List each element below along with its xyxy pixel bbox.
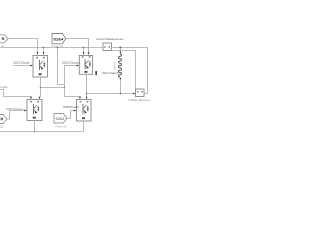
junction node riser [64,87,65,88]
svg-text:g1: g1 [1,44,5,48]
DC rail wire (y=47.5) [0,47,103,49]
goto tag G1 [52,34,66,44]
from tag F2 (bottom-left, clipped) [0,115,7,124]
wire from F1 to Q1 collector [8,39,37,53]
IGBT Q3 block [27,100,42,121]
from tag F3 [54,114,67,124]
svg-text:g2: g2 [0,125,4,129]
left wire into Q3 top-left [0,90,31,98]
arrowhead into Q1 gate [30,65,33,67]
junction node rail branch down [57,47,59,49]
Q3 emitter mark [33,117,36,119]
gate wire F3 to Q4 [67,111,74,119]
svg-text:S2&3: S2&3 [56,117,65,121]
gate wire into Q2 from Q1 output node [65,65,78,67]
arrowhead into Q2 top-right port [88,52,90,55]
wire Q4 output down to bus [83,121,85,132]
arrowhead RL branch bottom [120,78,122,81]
arrowhead into Q2 gate [77,65,80,67]
svg-text:10mH: 10mH [113,62,117,70]
wire Q3 output down to bus [34,121,36,132]
arrowhead into Q2 top-left port [83,52,85,55]
wire CM1 signal i [112,51,136,90]
junction node rail to Q2 [83,47,85,49]
CM1 plus mark [104,46,106,47]
wire node A to vertical riser [41,87,65,89]
junction node A on Q1 output [40,87,42,89]
wire Q1 output down [40,77,42,97]
wire Q2 output down to Q4 [86,74,88,97]
junction node B [86,93,88,95]
svg-text:Current Measurement: Current Measurement [96,37,124,41]
arrowhead into Q4 top-left port [79,97,81,100]
arrowhead into Q3 gate [24,110,27,112]
VM1 plus mark [137,91,139,92]
from tag F1 (top-left, clipped) [0,35,8,43]
IGBT Q1 block [33,56,48,78]
voltage measurement block VM1 [136,89,145,97]
wire rail to Q1 top-right port [43,48,45,53]
arrowhead into Q1 top-right port [43,52,45,55]
svg-text:IGBT/Diode: IGBT/Diode [13,61,30,65]
arrowhead into Q3 top-right port [39,97,41,100]
Q1 emitter mark [39,73,42,75]
current measurement block CM1 [103,43,112,51]
Q4 emitter mark [82,117,85,119]
wire node B to voltage measurement [87,93,134,95]
junction node bus [34,131,36,133]
wire rail to Q2 top-left port [83,48,85,53]
inductor L1 coil [119,54,122,77]
svg-text:Gnd1: Gnd1 [1,85,9,89]
junction node RL top [119,47,121,49]
svg-text:S1&4: S1&4 [53,37,64,42]
junction node C [120,93,122,95]
CM1 minus mark [109,46,111,47]
gate wire into Q1 [14,65,31,67]
wire rail down to lower bridge [58,48,65,85]
svg-text:From 21: From 21 [56,125,68,129]
annotation mark node m [95,71,97,75]
svg-text:RLC branch: RLC branch [103,71,119,75]
IGBT Q2 block [79,56,92,75]
IGBT Q4 block [77,100,92,122]
gate wire F2 to Q3 [7,111,24,120]
wire from G1 to Q2 top-right port [66,39,89,53]
arrowhead into Q4 top-right port [86,97,88,100]
Q2 emitter mark [84,71,87,73]
arrowhead into RL branch top [120,51,122,54]
arrowhead into Q1 top-left port [37,52,39,55]
bottom bus wire [0,131,84,133]
junction node on rail feeding Q1 [43,47,45,49]
svg-text:IGBT/Diode1: IGBT/Diode1 [62,61,81,65]
vertical riser wire [65,66,81,98]
wire CM1 output terminal [112,48,148,94]
wire into RL branch [119,48,121,52]
arrowhead into voltage measurement + [133,93,136,95]
VM1 minus mark [141,91,143,92]
arrowhead into Q3 top-left port [30,97,32,100]
svg-text:Voltage Measurement: Voltage Measurement [128,98,150,102]
arrowhead into Q4 gate [74,110,77,112]
wire RL branch to node C [119,80,121,94]
svg-text:IGBT/Diode3: IGBT/Diode3 [63,105,80,109]
